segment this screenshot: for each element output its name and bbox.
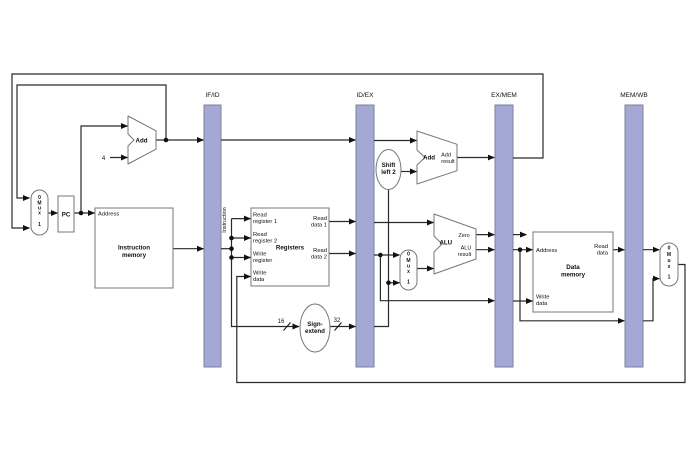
svg-text:16: 16 [278,319,285,325]
svg-text:Read: Read [313,216,327,222]
svg-text:32: 32 [334,318,341,324]
svg-text:0: 0 [407,252,410,258]
svg-text:IF/ID: IF/ID [205,92,219,99]
svg-text:Read: Read [253,213,267,219]
svg-text:Shift: Shift [382,162,396,169]
svg-text:1: 1 [38,222,41,228]
svg-text:Instruction: Instruction [222,207,228,232]
svg-text:x: x [38,211,41,217]
svg-text:Data: Data [566,264,580,271]
svg-text:Read: Read [594,244,608,250]
svg-text:memory: memory [122,252,147,259]
svg-text:Add: Add [441,153,451,159]
svg-text:x: x [668,264,671,270]
svg-text:register: register [253,258,272,264]
svg-text:Address: Address [536,248,557,254]
svg-text:Add: Add [423,155,435,162]
svg-text:memory: memory [561,272,586,279]
svg-text:Write: Write [253,252,266,258]
svg-text:ALU: ALU [439,240,452,247]
svg-text:data: data [536,301,548,307]
svg-text:data: data [253,277,265,283]
svg-text:result: result [458,252,472,258]
svg-text:1: 1 [407,280,410,286]
svg-text:PC: PC [62,212,71,219]
svg-text:data: data [597,251,609,257]
svg-text:result: result [441,159,455,165]
svg-text:Zero: Zero [458,233,469,239]
svg-text:data 2: data 2 [311,255,327,261]
svg-text:x: x [407,269,410,275]
svg-text:extend: extend [305,328,325,335]
svg-text:left 2: left 2 [381,169,396,176]
svg-text:register 1: register 1 [253,219,277,225]
svg-text:Instruction: Instruction [118,245,150,252]
svg-text:Sign-: Sign- [307,321,322,328]
svg-text:ALU: ALU [461,246,472,252]
svg-text:Write: Write [536,295,549,301]
svg-text:EX/MEM: EX/MEM [491,92,517,99]
svg-text:MEM/WB: MEM/WB [620,92,647,99]
svg-text:data 1: data 1 [311,223,327,229]
svg-text:Address: Address [98,212,119,218]
svg-text:1: 1 [668,275,671,281]
svg-text:0: 0 [668,246,671,252]
svg-text:Registers: Registers [276,245,305,252]
svg-text:ID/EX: ID/EX [357,92,375,99]
svg-text:Write: Write [253,271,266,277]
svg-text:Read: Read [253,232,267,238]
svg-text:Add: Add [135,138,147,145]
svg-text:Read: Read [313,248,327,254]
svg-text:register 2: register 2 [253,239,277,245]
